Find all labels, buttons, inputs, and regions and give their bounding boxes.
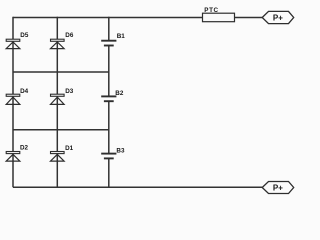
svg-text:D2: D2 xyxy=(20,145,29,152)
svg-text:D4: D4 xyxy=(20,88,29,95)
svg-text:B2: B2 xyxy=(115,90,124,97)
diode D1 xyxy=(51,152,65,162)
svg-text:D5: D5 xyxy=(20,32,29,39)
battery B1 xyxy=(101,41,116,46)
battery B2 xyxy=(101,96,116,101)
wire bottom bus xyxy=(13,186,262,188)
wire left column vertical xyxy=(12,17,14,188)
wire row connect 2 xyxy=(13,129,109,131)
wire PTC to P+ connector xyxy=(235,17,263,19)
diode D4 xyxy=(6,94,20,104)
svg-text:P+: P+ xyxy=(273,13,283,22)
svg-text:B3: B3 xyxy=(116,147,125,154)
wire top bus xyxy=(13,17,203,19)
wire row connect 1 xyxy=(13,71,109,73)
svg-text:D6: D6 xyxy=(65,32,74,39)
diode D2 xyxy=(6,152,20,162)
diode D6 xyxy=(51,39,65,48)
wire middle column vertical xyxy=(56,17,58,188)
svg-text:B1: B1 xyxy=(117,33,126,40)
battery B3 xyxy=(101,154,116,159)
diode D5 xyxy=(6,39,20,48)
port P+ bottom xyxy=(262,182,294,194)
svg-text:D1: D1 xyxy=(65,145,74,152)
port P+ top xyxy=(262,11,294,23)
svg-text:D3: D3 xyxy=(65,88,74,95)
wire battery column segments xyxy=(108,17,110,188)
svg-text:PTC: PTC xyxy=(204,7,218,14)
svg-text:P+: P+ xyxy=(273,183,283,192)
resistor PTC xyxy=(203,13,235,22)
diode D3 xyxy=(51,94,65,104)
